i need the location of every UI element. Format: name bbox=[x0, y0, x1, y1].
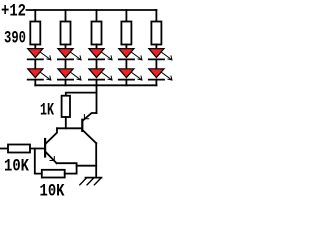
wire stub column4 bbox=[125, 10, 127, 22]
wire +12 rail bbox=[27, 9, 157, 11]
label 10K left bbox=[4, 156, 30, 176]
LED D2 bbox=[28, 69, 51, 80]
wire R7 to Q2 base bbox=[30, 148, 44, 150]
svg-text:390: 390 bbox=[4, 28, 26, 48]
wire Q2 emitter to node bbox=[57, 163, 77, 173]
LED D1 bbox=[28, 49, 51, 60]
wire D1 to D2 bbox=[34, 59, 36, 68]
wire left input to R7 bbox=[0, 148, 8, 150]
resistor R4 390 bbox=[121, 22, 131, 45]
wire D10 to bus bbox=[155, 80, 157, 86]
resistor R7 10K bbox=[8, 145, 30, 153]
svg-text:1K: 1K bbox=[40, 100, 55, 120]
resistor R2 390 bbox=[61, 22, 71, 45]
LED D3 bbox=[58, 49, 81, 60]
wire stub column1 bbox=[34, 10, 36, 22]
wire D7 to D8 bbox=[125, 59, 127, 68]
node +12 label bbox=[1, 1, 26, 21]
wire stub column5 bbox=[155, 10, 157, 22]
LED D7 bbox=[119, 49, 142, 60]
wire R8 right to emitter node bbox=[65, 173, 77, 175]
resistor R1 390 bbox=[30, 22, 40, 45]
wire R3 to D5 bbox=[96, 45, 98, 49]
resistor R3 390 bbox=[92, 22, 102, 45]
wire R5 to D9 bbox=[155, 45, 157, 49]
label 1K bbox=[40, 100, 55, 120]
wire R1 to D1 bbox=[34, 45, 36, 49]
wire R4 to D7 bbox=[125, 45, 127, 49]
LED D5 bbox=[89, 49, 112, 60]
LED D9 bbox=[149, 49, 172, 60]
svg-text:10K: 10K bbox=[40, 181, 66, 201]
svg-text:+12: +12 bbox=[1, 1, 26, 21]
ground bbox=[80, 178, 102, 185]
wire D4 to bus bbox=[65, 80, 67, 86]
wire branch to R6 top bbox=[66, 93, 97, 96]
resistor R8 10K bbox=[42, 170, 65, 178]
wire R2 to D3 bbox=[65, 45, 67, 49]
LED D4 bbox=[58, 69, 81, 80]
label 390 bbox=[4, 28, 26, 48]
LED D8 bbox=[119, 69, 142, 80]
LED D6 bbox=[89, 69, 112, 80]
resistor R5 390 bbox=[151, 22, 161, 45]
wire R6 bottom to Q1 base rail bbox=[65, 117, 67, 128]
wire junction down from base rail bbox=[35, 149, 42, 174]
LED D10 bbox=[149, 69, 172, 80]
wire Q1 base rail bbox=[57, 127, 82, 129]
wire Q1 collector down bbox=[95, 143, 97, 177]
wire cathode bus bbox=[35, 84, 156, 86]
transistor Q1 PNP bbox=[82, 113, 96, 143]
wire D6 to bus bbox=[96, 80, 98, 86]
wire bus to Q1 emitter bbox=[96, 85, 98, 113]
wire D5 to D6 bbox=[96, 59, 98, 68]
label 10K bottom bbox=[40, 181, 66, 201]
wire branch Q2 emitter to ground node bbox=[77, 165, 97, 167]
resistor R6 1K bbox=[62, 96, 70, 117]
wire stub column3 bbox=[96, 10, 98, 22]
wire D2 to bus bbox=[34, 80, 36, 86]
svg-text:10K: 10K bbox=[4, 156, 30, 176]
wire D9 to D10 bbox=[155, 59, 157, 68]
transistor Q2 NPN bbox=[45, 128, 57, 163]
wire stub column2 bbox=[65, 10, 67, 22]
wire D8 to bus bbox=[125, 80, 127, 86]
wire D3 to D4 bbox=[65, 59, 67, 68]
